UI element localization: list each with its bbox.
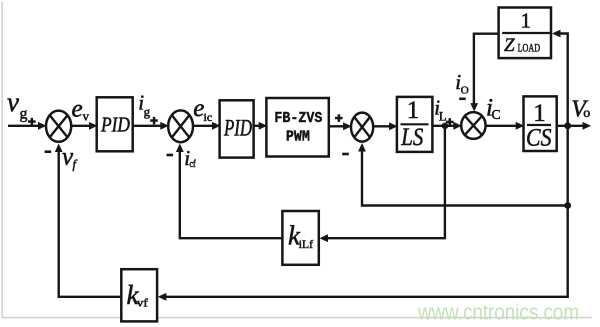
svg-text:PID: PID bbox=[100, 113, 130, 137]
svg-text:g: g bbox=[20, 105, 28, 122]
svg-text:1: 1 bbox=[520, 8, 531, 32]
svg-text:iLf: iLf bbox=[299, 237, 313, 251]
svg-text:LOAD: LOAD bbox=[518, 41, 541, 55]
svg-text:PWM: PWM bbox=[286, 129, 310, 145]
svg-text:CS: CS bbox=[526, 124, 552, 151]
svg-text:PID: PID bbox=[223, 116, 252, 141]
svg-text:1: 1 bbox=[533, 100, 546, 127]
svg-text:e: e bbox=[72, 95, 83, 122]
svg-text:v: v bbox=[7, 87, 19, 117]
svg-text:FB-ZVS: FB-ZVS bbox=[274, 111, 322, 127]
svg-text:ic: ic bbox=[204, 110, 213, 124]
svg-text:o: o bbox=[583, 106, 590, 121]
svg-text:www.cntronics.com: www.cntronics.com bbox=[417, 300, 579, 325]
svg-text:O: O bbox=[461, 85, 469, 97]
svg-text:Z: Z bbox=[504, 35, 515, 56]
svg-text:L: L bbox=[439, 109, 447, 123]
svg-text:cf: cf bbox=[190, 159, 197, 170]
svg-text:1: 1 bbox=[407, 97, 420, 124]
svg-text:v: v bbox=[83, 109, 90, 124]
svg-text:vf: vf bbox=[137, 296, 148, 310]
svg-text:C: C bbox=[492, 107, 501, 122]
svg-text:LS: LS bbox=[400, 124, 423, 151]
svg-text:g: g bbox=[144, 104, 151, 119]
